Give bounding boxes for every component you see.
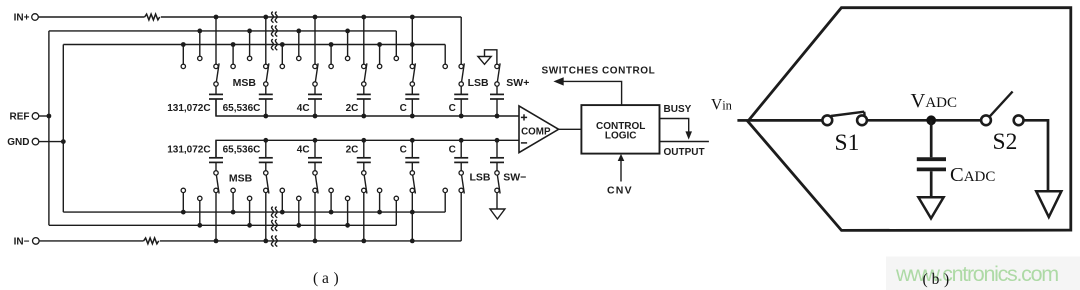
switch S1	[822, 112, 867, 126]
svg-text:C: C	[400, 145, 407, 156]
break marks (array continuation squiggles) on all six buses	[271, 12, 277, 247]
switch SW3T (top array bit 3)	[280, 15, 318, 87]
resistor R2 on IN- line	[144, 238, 159, 244]
svg-text:C: C	[449, 103, 456, 114]
capacitor on SW+ branch	[490, 86, 504, 118]
capacitor 4C (top)	[308, 86, 322, 118]
ground symbol below CADC	[918, 197, 943, 218]
switch SW1T (top array bit 1)	[181, 15, 219, 87]
node VADC (junction dot)	[926, 115, 936, 125]
svg-text:65,536C: 65,536C	[223, 103, 261, 114]
svg-text:S1: S1	[835, 130, 860, 156]
wire Vin to S1	[748, 119, 823, 122]
terminal IN+	[14, 13, 39, 24]
op-amp comparator COMP	[519, 106, 559, 153]
switch SW3B (bottom array bit 3)	[280, 171, 318, 244]
svg-text:C: C	[449, 145, 456, 156]
reference symbol (open triangle) below SW-	[490, 193, 505, 219]
svg-text:LSB: LSB	[468, 77, 489, 89]
svg-text:(: (	[313, 270, 318, 287]
ground symbol right (after S2)	[1036, 191, 1061, 217]
switch SW-	[495, 171, 500, 194]
wire OUTPUT line	[660, 141, 709, 143]
svg-text:SWITCHES CONTROL: SWITCHES CONTROL	[542, 66, 656, 77]
wire GND net (terminal, vertical riser, top+bottom buses)	[39, 45, 445, 213]
svg-text:CNV: CNV	[607, 185, 633, 197]
switch SW2B (bottom array bit 2)	[231, 171, 269, 244]
capacitor C (bottom)	[454, 138, 468, 171]
svg-text:Vin: Vin	[711, 96, 733, 113]
svg-text:2C: 2C	[346, 103, 359, 114]
capacitor C (top)	[405, 86, 419, 118]
svg-text:SW−: SW−	[503, 171, 526, 183]
reference symbol (open triangle) feeding SW+	[478, 50, 497, 65]
switch SW+	[495, 63, 500, 86]
switch SW5T (top array bit 5)	[377, 15, 415, 87]
switch SW4B (bottom array bit 4)	[329, 171, 367, 244]
svg-text:BUSY: BUSY	[664, 104, 692, 115]
capacitor 131,072C (bottom)	[209, 140, 223, 170]
terminal GND	[7, 137, 39, 148]
switch SW4T (top array bit 4)	[329, 15, 367, 87]
svg-text:): )	[334, 270, 339, 287]
svg-text:VADC: VADC	[911, 90, 957, 112]
wire S2 to ground	[1024, 120, 1049, 191]
svg-text:CADC: CADC	[950, 164, 995, 186]
svg-text:): )	[944, 271, 949, 288]
wire S1 to VADC node	[867, 119, 927, 122]
capacitor 65,536C (top)	[259, 86, 273, 118]
wire VADC node to S2	[936, 119, 981, 122]
svg-text:4C: 4C	[297, 145, 310, 156]
caption (b)	[923, 271, 950, 288]
svg-text:MSB: MSB	[229, 172, 253, 184]
capacitor 65,536C (bottom)	[259, 138, 273, 171]
svg-text:131,072C: 131,072C	[167, 145, 210, 156]
svg-text:GND: GND	[7, 137, 29, 148]
svg-text:SW+: SW+	[506, 77, 529, 89]
wire REF net (terminal, vertical riser, top+bottom buses)	[39, 31, 397, 225]
svg-text:131,072C: 131,072C	[167, 103, 210, 114]
svg-text:2C: 2C	[346, 145, 359, 156]
svg-text:REF: REF	[10, 112, 30, 123]
svg-text:IN+: IN+	[14, 13, 30, 24]
svg-text:MSB: MSB	[233, 77, 257, 89]
switch S2	[981, 92, 1023, 126]
switch SW6T (top array bit 6)	[443, 63, 464, 86]
wire Vin stub into vertex	[737, 119, 748, 122]
svg-text:www.cntronics.com: www.cntronics.com	[895, 262, 1058, 286]
wire IN+ bus (top)	[38, 17, 461, 64]
capacitor CADC	[917, 120, 946, 197]
svg-text:4C: 4C	[297, 103, 310, 114]
ADC device outline (pentagon)	[748, 8, 1071, 231]
control logic block U1	[581, 105, 659, 154]
wire IN- bus (bottom)	[39, 193, 461, 241]
capacitor 2C (bottom)	[357, 138, 371, 171]
resistor R1 on IN+ line	[145, 14, 160, 20]
terminal IN-	[14, 237, 39, 248]
switch SW2T (top array bit 2)	[231, 15, 269, 87]
wire top rail to comparator + input	[216, 99, 519, 116]
capacitor 4C (bottom)	[308, 138, 322, 171]
capacitor on SW- branch	[490, 138, 504, 171]
svg-text:a: a	[322, 270, 329, 287]
capacitor 131,072C (top)	[209, 86, 223, 116]
capacitor 2C (top)	[357, 86, 371, 118]
svg-text:S2: S2	[993, 129, 1018, 155]
svg-text:(: (	[923, 271, 928, 288]
wire comparator output to control logic	[559, 128, 582, 130]
svg-text:C: C	[400, 103, 407, 114]
svg-text:65,536C: 65,536C	[223, 145, 261, 156]
wire/arrow CNV input	[618, 154, 625, 182]
capacitor C (top)	[454, 86, 468, 118]
svg-text:b: b	[932, 271, 940, 288]
terminal REF	[10, 112, 39, 123]
wire/arrow switches control (from control logic)	[553, 77, 621, 105]
wire/arrow BUSY output	[660, 119, 693, 140]
svg-text:OUTPUT: OUTPUT	[664, 147, 705, 158]
wire bottom rail to comparator - input	[216, 140, 519, 158]
switch SW6B (bottom array bit 6)	[443, 171, 464, 194]
switch SW1B (bottom array bit 1)	[181, 171, 219, 244]
switch SW5B (bottom array bit 5)	[377, 171, 415, 244]
capacitor C (bottom)	[405, 138, 419, 171]
svg-text:LOGIC: LOGIC	[605, 130, 637, 141]
svg-text:LSB: LSB	[470, 171, 491, 183]
caption (a)	[313, 270, 339, 287]
svg-text:COMP: COMP	[521, 127, 551, 138]
svg-text:IN−: IN−	[14, 237, 30, 248]
watermark background band	[886, 257, 1080, 290]
